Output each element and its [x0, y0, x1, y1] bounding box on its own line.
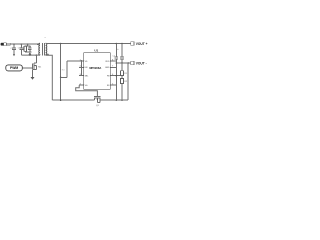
node snubber tap junction — [27, 43, 29, 45]
wire input rail — [11, 43, 40, 45]
wire top output rail — [46, 43, 131, 45]
wire tap horizontal — [61, 76, 67, 78]
wire snubber tap — [27, 44, 29, 46]
ground primary fet — [31, 77, 35, 80]
svg-text:6: 6 — [112, 74, 113, 76]
wire vout minus down — [127, 63, 129, 100]
node output cap2 top — [121, 43, 123, 45]
svg-text:VG: VG — [85, 85, 88, 87]
PWM controller box — [6, 65, 23, 71]
transistor Q1 sync fet — [94, 96, 100, 102]
node right vertical pin6 — [116, 75, 118, 77]
pin 2 stub left — [79, 66, 84, 68]
transformer T1 secondary winding — [46, 43, 47, 55]
node right vertical bottom — [116, 99, 118, 101]
node pin2 junction — [81, 67, 83, 69]
svg-text:MP6908A: MP6908A — [89, 66, 101, 70]
wire secondary bottom — [46, 55, 53, 100]
input plug J1 — [1, 43, 7, 46]
wire gate staircase — [76, 85, 98, 97]
node right vertical vout- — [116, 62, 118, 64]
capacitor C4 output — [114, 57, 118, 59]
capacitor C2 — [20, 44, 24, 55]
wire bottom rail left — [52, 99, 94, 101]
svg-text:VDD: VDD — [105, 61, 110, 63]
wire pin branch vertical — [80, 61, 82, 76]
svg-text:GND: GND — [105, 67, 110, 69]
pin 7 stub right — [110, 66, 116, 68]
wire pin1 feed — [67, 60, 84, 62]
svg-text:1: 1 — [80, 59, 81, 61]
transformer core — [43, 43, 45, 55]
svg-text:7: 7 — [112, 66, 113, 68]
svg-text:Rd: Rd — [62, 69, 65, 71]
svg-text:U1: U1 — [94, 48, 98, 52]
wire switch node — [21, 54, 40, 56]
transformer secondary polarity dot — [47, 54, 48, 55]
wire tap vertical — [66, 61, 68, 78]
svg-text:VOUT -: VOUT - — [136, 61, 147, 65]
pin 6 stub right — [110, 75, 122, 77]
node vout minus corner — [127, 62, 129, 64]
op-amp U1 box — [84, 53, 111, 90]
transformer T1 primary winding — [39, 43, 40, 55]
node divider top — [121, 62, 123, 64]
wire snubber top bar — [25, 45, 30, 47]
wire gate primary — [22, 67, 32, 69]
resistor R2 divider — [120, 76, 123, 101]
ground cap1 — [13, 54, 15, 56]
resistor R1 divider — [120, 63, 123, 76]
node switch wire diode junction — [29, 54, 31, 56]
node divider bottom rail — [121, 99, 123, 101]
svg-text:3: 3 — [80, 74, 81, 76]
svg-text:VOUT +: VOUT + — [136, 42, 148, 46]
svg-text:2: 2 — [80, 66, 81, 68]
node preload top — [60, 43, 62, 45]
diode D1 clamp — [28, 52, 31, 55]
svg-text:C4: C4 — [112, 56, 114, 58]
wire bottom rail right — [100, 99, 128, 101]
terminal VOUT- — [131, 61, 134, 64]
node output cap1 top — [116, 43, 118, 45]
pin 8 stub right — [110, 60, 116, 62]
pin 5 stub right — [110, 84, 116, 86]
capacitor C3 snubber — [28, 46, 32, 52]
terminal VOUT+ — [131, 42, 134, 45]
svg-text:5: 5 — [112, 84, 113, 86]
svg-text:8: 8 — [112, 59, 113, 61]
wire vout minus rail — [116, 62, 130, 64]
wire preload vertical — [60, 44, 62, 101]
pin 4 stub left — [79, 84, 84, 86]
resistor R2 snubber — [24, 46, 26, 52]
fuse F1 — [6, 43, 11, 45]
svg-text:PWM: PWM — [10, 66, 18, 70]
svg-text:4: 4 — [80, 84, 81, 86]
transformer primary polarity dot — [37, 44, 38, 45]
node drain tap — [36, 54, 38, 56]
wire right vertical upper — [115, 44, 117, 57]
node pin feed branch — [81, 60, 83, 62]
node input cap 2 junction — [21, 43, 23, 45]
node preload bottom — [60, 99, 62, 101]
node input cap 1 junction — [13, 43, 15, 45]
pin 3 stub left — [79, 75, 84, 77]
capacitor C1 — [12, 44, 16, 54]
capacitor C5 output — [120, 44, 124, 64]
wire snubber bottom bar — [25, 51, 30, 53]
wire right vertical lower — [115, 59, 117, 100]
pin 1 stub left — [79, 60, 84, 62]
node preload tap — [60, 77, 62, 79]
transistor M1 primary fet — [32, 55, 36, 77]
